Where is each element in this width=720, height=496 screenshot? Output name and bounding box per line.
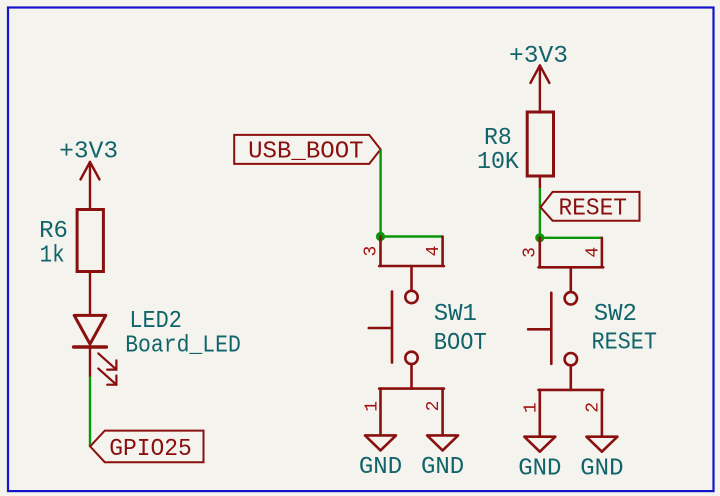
svg-text:GPIO25: GPIO25 <box>109 436 192 463</box>
svg-text:+3V3: +3V3 <box>59 138 118 165</box>
svg-text:USB_BOOT: USB_BOOT <box>248 139 364 166</box>
svg-text:LED2: LED2 <box>129 308 182 335</box>
svg-text:R6: R6 <box>39 218 68 245</box>
svg-text:RESET: RESET <box>559 196 628 223</box>
svg-text:SW2: SW2 <box>594 301 637 328</box>
svg-text:BOOT: BOOT <box>434 330 487 357</box>
svg-text:Board_LED: Board_LED <box>125 333 241 360</box>
svg-text:10K: 10K <box>477 149 519 176</box>
svg-text:1k: 1k <box>40 243 65 270</box>
svg-text:SW1: SW1 <box>434 301 477 328</box>
svg-text:RESET: RESET <box>592 330 657 357</box>
